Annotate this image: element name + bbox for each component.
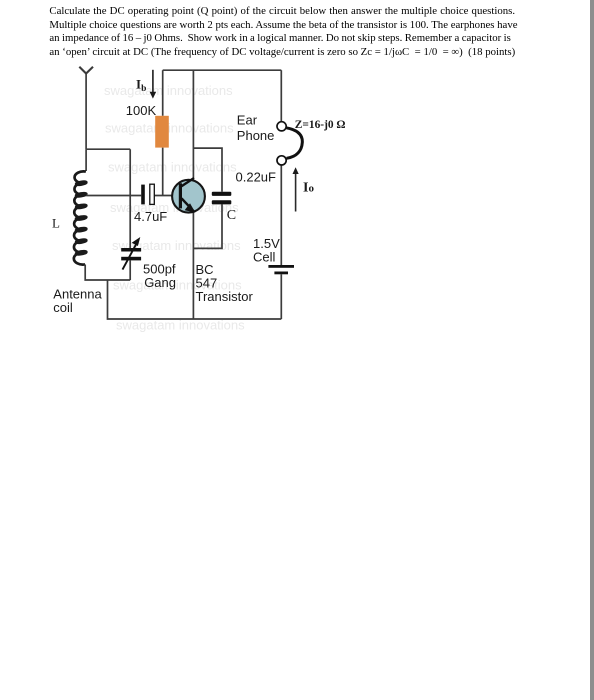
page right edge band xyxy=(590,0,594,700)
svg-text:Phone: Phone xyxy=(237,128,275,143)
transistor Q1 emitter arrowhead xyxy=(185,203,196,212)
wire antenna down to tank top xyxy=(85,74,87,150)
svg-text:Z=16-j0 Ω: Z=16-j0 Ω xyxy=(295,119,346,131)
problem statement paragraph xyxy=(49,5,517,59)
svg-text:L: L xyxy=(52,216,60,231)
watermark rows xyxy=(104,83,245,332)
transistor Q1 collector stroke xyxy=(182,178,195,186)
svg-text:Ib: Ib xyxy=(136,77,146,95)
earphone curved body xyxy=(286,128,302,159)
bypass capacitor C plate bottom xyxy=(212,200,232,204)
svg-text:C: C xyxy=(227,208,236,223)
wire tank right below variable cap xyxy=(129,260,131,280)
variable capacitor C1 plate bottom xyxy=(121,257,141,261)
transistor Q1 base bar xyxy=(179,183,182,208)
wire bypass cap C bottom stub xyxy=(193,204,222,248)
wire top rail xyxy=(163,69,282,71)
earphone bottom terminal xyxy=(277,156,286,165)
svg-text:swagatam innovations: swagatam innovations xyxy=(105,120,234,135)
svg-text:Cell: Cell xyxy=(253,250,276,265)
battery B1 short plate xyxy=(274,272,288,275)
wire emitter branch xyxy=(192,213,194,320)
inductor L junction eye loops xyxy=(75,181,87,256)
svg-text:Gang: Gang xyxy=(144,275,176,290)
capacitor C2 4.7uF plate left (solid) xyxy=(141,185,145,205)
svg-text:swagatam innovations: swagatam innovations xyxy=(104,83,233,98)
wire tank left above coil xyxy=(85,149,87,171)
svg-text:swagatam innovations: swagatam innovations xyxy=(108,159,237,174)
battery B1 long plate xyxy=(268,265,294,268)
svg-text:Transistor: Transistor xyxy=(196,289,254,304)
wire coil tap to capacitor C2 xyxy=(86,195,141,197)
Io arrow xyxy=(293,167,299,211)
transistor Q1 circle xyxy=(172,180,205,213)
wire tank top rail xyxy=(86,148,130,150)
wire battery to ground rail xyxy=(280,274,282,319)
bypass capacitor C plate top xyxy=(212,192,232,196)
wire earphone to battery xyxy=(280,165,282,265)
svg-text:Ear: Ear xyxy=(237,113,258,128)
wire tank bottom to ground rail xyxy=(108,280,282,319)
antenna xyxy=(79,67,93,74)
wire bypass cap C top stub xyxy=(193,148,222,192)
transistor Q1 emitter stroke xyxy=(182,198,195,212)
variable capacitor C1 plate top xyxy=(121,248,141,252)
wire resistor R1 branch top xyxy=(162,70,164,116)
resistor R1 100K xyxy=(155,116,169,148)
svg-text:4.7uF: 4.7uF xyxy=(134,209,167,224)
wire earphone branch top xyxy=(280,70,282,121)
wire tank left below coil xyxy=(85,265,130,281)
Ib arrow xyxy=(150,70,157,99)
wire tank right above variable cap xyxy=(129,149,131,248)
svg-text:0.22uF: 0.22uF xyxy=(236,169,277,184)
wire resistor R1 branch bottom to base node xyxy=(162,148,164,196)
capacitor C2 4.7uF plate right (hollow) xyxy=(150,184,155,204)
wire capacitor C2 to base xyxy=(154,195,178,197)
wire collector branch xyxy=(192,70,194,178)
svg-text:coil: coil xyxy=(53,300,73,315)
variable capacitor C1 arrow xyxy=(123,237,141,270)
svg-text:Io: Io xyxy=(303,180,314,195)
inductor L coil arcs xyxy=(74,171,86,264)
svg-text:100K: 100K xyxy=(126,103,157,118)
earphone top terminal xyxy=(277,122,286,131)
